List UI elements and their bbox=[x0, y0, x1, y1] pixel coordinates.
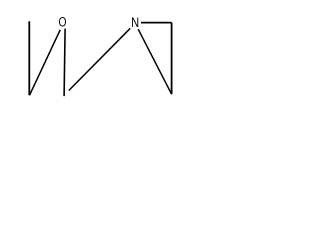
wire bbox=[141, 22, 172, 24]
svg-text:O: O bbox=[59, 15, 67, 30]
wire bbox=[30, 30, 61, 96]
svg-text:N: N bbox=[131, 15, 139, 30]
wire bbox=[64, 29, 65, 97]
wire bbox=[69, 28, 130, 90]
wire bbox=[138, 29, 171, 94]
wire bbox=[28, 21, 30, 95]
wire bbox=[171, 23, 173, 95]
